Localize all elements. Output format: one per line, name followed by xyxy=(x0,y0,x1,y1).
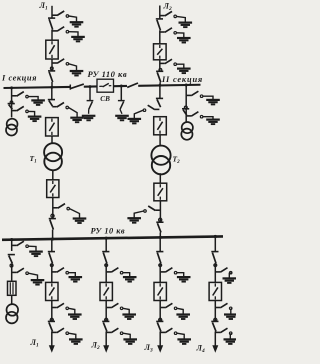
svg-text:РУ 110 кв: РУ 110 кв xyxy=(88,69,128,79)
svg-text:СВ: СВ xyxy=(100,95,110,103)
svg-text:I секция: I секция xyxy=(1,74,37,83)
svg-text:РУ 10 кв: РУ 10 кв xyxy=(91,227,126,236)
svg-text:II секция: II секция xyxy=(161,75,203,84)
